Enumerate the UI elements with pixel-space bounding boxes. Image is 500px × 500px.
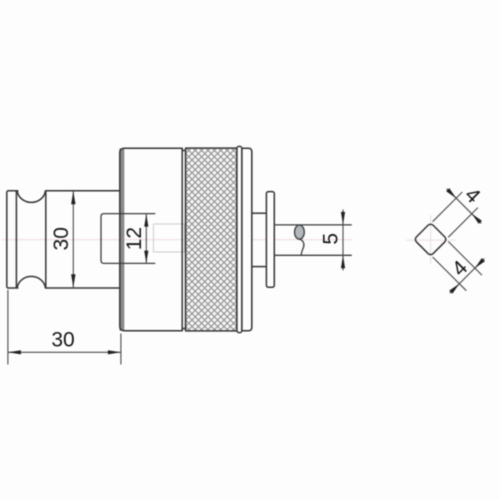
svg-text:30: 30: [50, 227, 73, 250]
svg-text:5: 5: [320, 233, 343, 245]
svg-text:12: 12: [123, 227, 146, 250]
svg-text:30: 30: [51, 329, 74, 352]
